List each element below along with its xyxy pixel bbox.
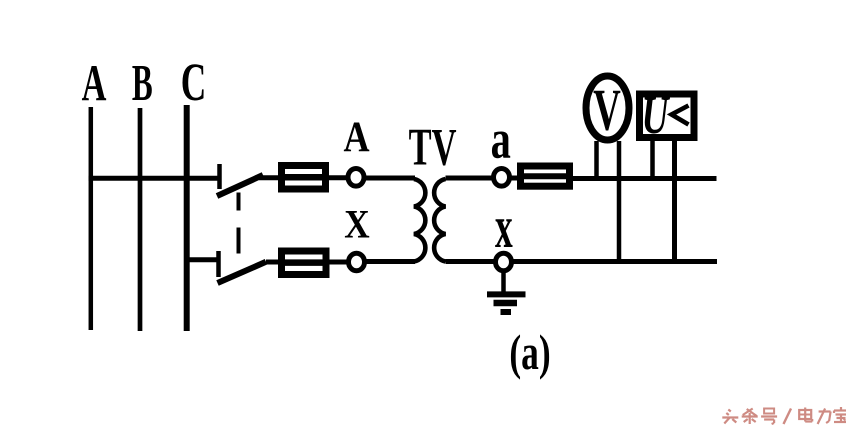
svg-text:U: U — [642, 86, 671, 145]
svg-text:TV: TV — [409, 117, 457, 176]
svg-text:B: B — [132, 55, 153, 112]
svg-text:A: A — [82, 54, 107, 112]
svg-text:V: V — [593, 77, 621, 142]
svg-text:C: C — [181, 51, 207, 111]
svg-text:A: A — [343, 113, 369, 161]
svg-text:X: X — [344, 202, 369, 247]
svg-text:x: x — [495, 193, 513, 260]
svg-text:(a): (a) — [509, 326, 550, 380]
svg-text:a: a — [491, 110, 511, 170]
